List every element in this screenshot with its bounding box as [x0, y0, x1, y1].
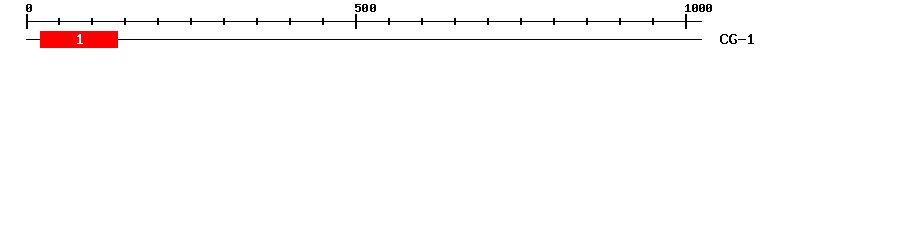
feature number 1 (white) [77, 34, 83, 44]
ruler label 1000 [685, 4, 712, 12]
background [0, 0, 900, 58]
feature label CG-1 [720, 34, 754, 44]
ruler label 0 [26, 4, 32, 12]
ruler axis line [26, 21, 702, 22]
ruler major ticks at 0, 500, 1000 [26, 14, 687, 29]
ruler label 500 [355, 4, 376, 12]
feature box (red) [40, 31, 118, 48]
ruler minor ticks every 50 [58, 18, 654, 25]
feature track connector line [26, 39, 702, 40]
